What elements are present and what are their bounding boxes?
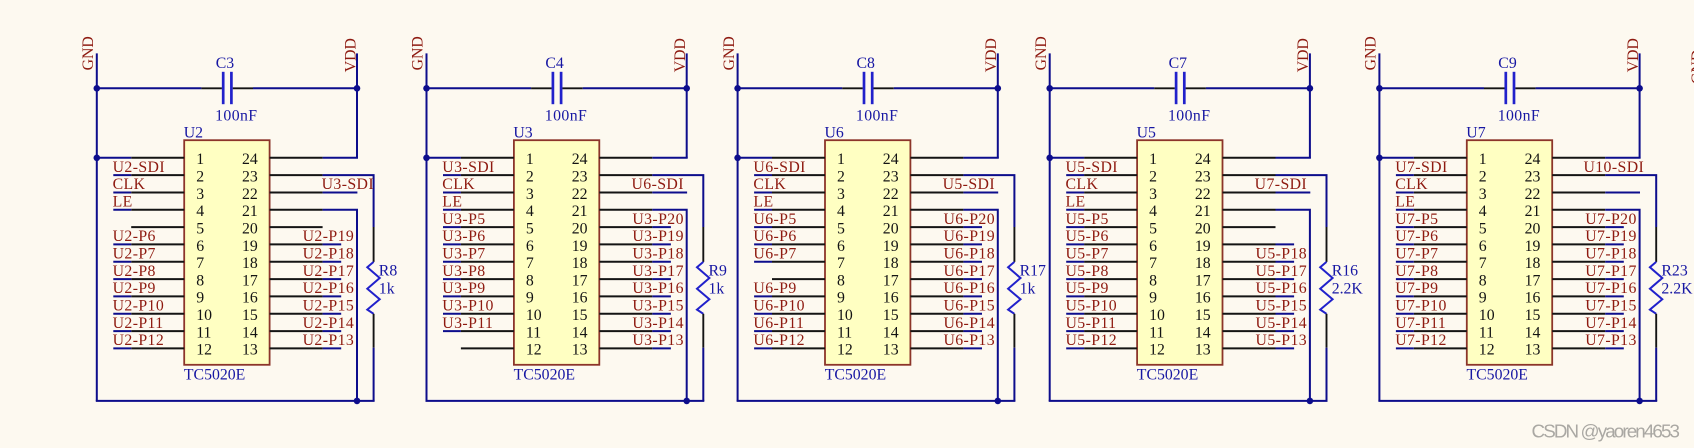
svg-text:U10-SDI: U10-SDI: [1583, 159, 1644, 176]
svg-text:14: 14: [1195, 324, 1211, 341]
pin 22 of U3: [599, 192, 652, 194]
pin 6 of U7: [1414, 243, 1467, 245]
svg-text:21: 21: [883, 203, 899, 220]
pin 20 of U5: [1223, 226, 1276, 228]
wire stub pin 11 (U3-P11): [443, 330, 461, 332]
svg-text:22: 22: [883, 186, 899, 203]
svg-text:2: 2: [1479, 168, 1487, 185]
svg-text:21: 21: [242, 203, 258, 220]
svg-text:LE: LE: [753, 194, 773, 211]
wire stub pin 2 (U5-SDI): [1066, 174, 1084, 176]
junction GND-top: [1376, 85, 1383, 92]
svg-text:23: 23: [1525, 168, 1541, 185]
wire stub pin 16 (U7-P16): [1605, 295, 1624, 297]
wire stub pin 9 (U3-P9): [443, 295, 461, 297]
pin 9 of U7: [1414, 295, 1467, 297]
junction VDD-top: [1307, 85, 1314, 92]
pin 14 of U5: [1223, 330, 1276, 332]
svg-text:U6-P17: U6-P17: [943, 263, 995, 280]
wire stub pin 3 (CLK): [113, 192, 131, 194]
pin 24 of U5: [1223, 157, 1276, 159]
pin 5 of U6: [772, 226, 825, 228]
pin 3 of U2: [131, 192, 184, 194]
svg-text:GND: GND: [1363, 36, 1380, 70]
svg-text:U5-P10: U5-P10: [1066, 298, 1118, 315]
svg-text:16: 16: [572, 290, 588, 307]
svg-text:2: 2: [837, 168, 845, 185]
svg-text:U2-P15: U2-P15: [303, 298, 355, 315]
wire GND bus vertical (U6 block): [737, 53, 739, 401]
svg-text:U7: U7: [1466, 124, 1485, 141]
svg-text:12: 12: [526, 342, 542, 359]
svg-text:17: 17: [242, 272, 258, 289]
pin 13 of U2: [270, 347, 323, 349]
svg-text:12: 12: [1479, 342, 1495, 359]
wire stub pin 16 (U5-P16): [1276, 295, 1295, 297]
wire stub pin 9 (U6-P9): [754, 295, 772, 297]
svg-text:2: 2: [526, 168, 534, 185]
pin 10 of U2: [131, 313, 184, 315]
svg-text:U3-P11: U3-P11: [442, 315, 493, 332]
svg-text:U6-P19: U6-P19: [943, 228, 995, 245]
pin 1 of U2: [131, 157, 184, 159]
wire stub pin 2 (U2-SDI): [113, 174, 131, 176]
pin 24 of U7: [1552, 157, 1605, 159]
wire stub pin 3 (CLK): [1396, 192, 1414, 194]
wire stub pin 4 (LE): [443, 209, 461, 211]
svg-text:U3-P7: U3-P7: [442, 246, 485, 263]
pin 22 of U5: [1223, 192, 1276, 194]
svg-text:U2: U2: [184, 124, 203, 141]
svg-text:8: 8: [1149, 272, 1157, 289]
svg-text:U5-P12: U5-P12: [1066, 332, 1118, 349]
svg-text:22: 22: [242, 186, 258, 203]
svg-text:5: 5: [196, 220, 204, 237]
svg-text:5: 5: [526, 220, 534, 237]
svg-text:1: 1: [1149, 151, 1157, 168]
svg-text:C4: C4: [545, 55, 564, 72]
pin 12 of U6: [772, 347, 825, 349]
pin 19 of U3: [599, 243, 652, 245]
wire stub pin 6 (U2-P6): [113, 243, 131, 245]
svg-text:GND: GND: [721, 36, 738, 70]
svg-text:U6-P18: U6-P18: [943, 246, 995, 263]
svg-text:1: 1: [837, 151, 845, 168]
wire pin22-U6 stub: [963, 192, 998, 194]
svg-text:10: 10: [526, 307, 542, 324]
svg-text:4: 4: [526, 203, 534, 220]
wire GND bus vertical (U7 block): [1378, 53, 1380, 401]
pin 1 of U3: [461, 157, 514, 159]
svg-text:CSDN @yaoren4653: CSDN @yaoren4653: [1532, 420, 1681, 441]
svg-text:16: 16: [1195, 290, 1211, 307]
junction VDD-top: [354, 85, 361, 92]
svg-text:U6-P12: U6-P12: [753, 332, 805, 349]
svg-text:15: 15: [1195, 307, 1211, 324]
svg-text:U3-P10: U3-P10: [442, 298, 494, 315]
svg-text:7: 7: [837, 255, 845, 272]
wire VDD vertical (U2 block): [356, 53, 358, 157]
wire stub pin 19 (unlabeled): [1276, 243, 1295, 245]
pin 12 of U2: [131, 347, 184, 349]
wire stub pin 16 (U2-P16): [323, 295, 342, 297]
svg-text:6: 6: [837, 238, 845, 255]
svg-text:15: 15: [572, 307, 588, 324]
svg-text:15: 15: [883, 307, 899, 324]
IC U2 TC5020E body: [184, 140, 269, 365]
svg-text:U3-P15: U3-P15: [632, 298, 684, 315]
pin 11 of U5: [1084, 330, 1137, 332]
svg-text:R16: R16: [1332, 263, 1358, 280]
pin 4 of U6: [772, 209, 825, 211]
svg-text:U3-P20: U3-P20: [632, 211, 684, 228]
wire stub pin 18 (U5-P18): [1276, 261, 1295, 263]
svg-text:U5-SDI: U5-SDI: [1066, 159, 1118, 176]
junction GND-top: [423, 85, 430, 92]
svg-text:23: 23: [242, 168, 258, 185]
svg-text:24: 24: [242, 151, 258, 168]
svg-text:18: 18: [883, 255, 899, 272]
svg-text:10: 10: [1479, 307, 1495, 324]
svg-text:2.2K: 2.2K: [1332, 281, 1364, 298]
wire stub pin 15 (U5-P15): [1276, 313, 1295, 315]
pin 3 of U3: [461, 192, 514, 194]
junction bottom rail: [354, 398, 361, 405]
junction GND-top: [1046, 85, 1053, 92]
svg-text:CLK: CLK: [1395, 176, 1428, 193]
wire stub pin 10 (U6-P10): [754, 313, 772, 315]
svg-text:13: 13: [1195, 342, 1211, 359]
svg-text:U7-P15: U7-P15: [1585, 298, 1637, 315]
wire top rail right of C4: [583, 87, 688, 89]
wire pin24-U6 to VDD: [963, 157, 998, 159]
pin 15 of U7: [1552, 313, 1605, 315]
wire stub pin 7 (U6-P7): [754, 261, 772, 263]
wire stub pin 20 (U7-P20): [1605, 226, 1624, 228]
svg-text:1: 1: [1479, 151, 1487, 168]
svg-text:13: 13: [883, 342, 899, 359]
wire top rail right of C7: [1206, 87, 1311, 89]
wire pin1-U2 to GND bus: [97, 157, 131, 159]
svg-text:9: 9: [196, 290, 204, 307]
wire top rail left of C3: [96, 87, 202, 89]
svg-text:U2-P6: U2-P6: [113, 228, 156, 245]
wire pin23-U7 to resistor R23: [1605, 175, 1656, 227]
wire stub pin 10 (U5-P10): [1066, 313, 1084, 315]
svg-text:U2-P7: U2-P7: [113, 246, 156, 263]
svg-text:6: 6: [526, 238, 534, 255]
pin 15 of U2: [270, 313, 323, 315]
svg-text:9: 9: [1479, 290, 1487, 307]
svg-text:LE: LE: [1395, 194, 1415, 211]
svg-text:U5-P6: U5-P6: [1066, 228, 1109, 245]
svg-text:CLK: CLK: [113, 176, 146, 193]
wire top rail right of C9: [1536, 87, 1641, 89]
svg-text:19: 19: [883, 238, 899, 255]
pin 22 of U6: [910, 192, 963, 194]
pin 4 of U7: [1414, 209, 1467, 211]
wire stub pin 15 (U6-P15): [963, 313, 982, 315]
wire bottom rail (U6 block): [737, 400, 1016, 402]
svg-text:U2-P16: U2-P16: [303, 280, 355, 297]
svg-text:U5: U5: [1137, 124, 1156, 141]
wire stub pin 9 (U7-P9): [1396, 295, 1414, 297]
pin 10 of U3: [461, 313, 514, 315]
svg-text:TC5020E: TC5020E: [825, 367, 886, 384]
wire stub pin 10 (U2-P10): [113, 313, 131, 315]
pin 16 of U7: [1552, 295, 1605, 297]
svg-text:9: 9: [1149, 290, 1157, 307]
pin 11 of U7: [1414, 330, 1467, 332]
wire stub pin 13 (U2-P13): [323, 347, 342, 349]
wire GND bus vertical (U2 block): [96, 53, 98, 401]
pin 14 of U6: [910, 330, 963, 332]
wire pin23-U3 to resistor R9: [652, 175, 703, 227]
pin 1 of U6: [772, 157, 825, 159]
svg-text:GND: GND: [1689, 50, 1694, 84]
svg-text:8: 8: [196, 272, 204, 289]
pin 17 of U7: [1552, 278, 1605, 280]
svg-text:11: 11: [1479, 324, 1494, 341]
svg-text:1k: 1k: [379, 281, 395, 298]
svg-text:18: 18: [242, 255, 258, 272]
svg-text:U6-P16: U6-P16: [943, 280, 995, 297]
svg-text:16: 16: [242, 290, 258, 307]
wire top rail right of C8: [894, 87, 999, 89]
svg-text:20: 20: [1525, 220, 1541, 237]
wire pin24-U7 to VDD: [1605, 157, 1640, 159]
wire pin1-U6 to GND bus: [738, 157, 772, 159]
pin 20 of U3: [599, 226, 652, 228]
svg-text:17: 17: [883, 272, 899, 289]
wire pin23-U6 to resistor R17: [963, 175, 1014, 227]
junction GND-pin1: [94, 155, 101, 162]
wire stub pin 6 (U5-P6): [1066, 243, 1084, 245]
wire VDD vertical (U6 block): [997, 53, 999, 157]
svg-text:U2-P11: U2-P11: [113, 315, 164, 332]
pin 10 of U6: [772, 313, 825, 315]
wire stub pin 14 (U2-P14): [323, 330, 342, 332]
pin 18 of U5: [1223, 261, 1276, 263]
svg-text:U7-P8: U7-P8: [1395, 263, 1438, 280]
svg-text:19: 19: [1525, 238, 1541, 255]
pin 19 of U6: [910, 243, 963, 245]
wire stub pin 8 (U2-P8): [113, 278, 131, 280]
svg-text:U5-P14: U5-P14: [1256, 315, 1308, 332]
pin 3 of U7: [1414, 192, 1467, 194]
pin 11 of U2: [131, 330, 184, 332]
svg-text:U7-SDI: U7-SDI: [1255, 176, 1307, 193]
pin 21 of U3: [599, 209, 652, 211]
svg-text:24: 24: [883, 151, 899, 168]
pin 3 of U6: [772, 192, 825, 194]
pin 5 of U2: [131, 226, 184, 228]
svg-text:U3-P13: U3-P13: [632, 332, 684, 349]
wire bottom rail (U5 block): [1049, 400, 1328, 402]
pin 6 of U2: [131, 243, 184, 245]
pin 13 of U5: [1223, 347, 1276, 349]
wire stub pin 14 (U7-P14): [1605, 330, 1624, 332]
svg-text:LE: LE: [1066, 194, 1086, 211]
svg-text:U7-P12: U7-P12: [1395, 332, 1447, 349]
wire stub pin 18 (U3-P18): [652, 261, 671, 263]
svg-text:100nF: 100nF: [856, 108, 898, 125]
svg-text:U5-P16: U5-P16: [1256, 280, 1308, 297]
wire stub pin 13 (U3-P13): [652, 347, 671, 349]
svg-text:CLK: CLK: [442, 176, 475, 193]
pin 23 of U2: [270, 174, 323, 176]
junction bottom rail: [995, 398, 1002, 405]
svg-text:CLK: CLK: [753, 176, 786, 193]
wire stub pin 16 (U3-P16): [652, 295, 671, 297]
svg-text:11: 11: [526, 324, 541, 341]
junction GND-top: [734, 85, 741, 92]
svg-text:7: 7: [1479, 255, 1487, 272]
pin 9 of U6: [772, 295, 825, 297]
svg-text:LE: LE: [113, 194, 133, 211]
svg-text:18: 18: [1525, 255, 1541, 272]
svg-text:CLK: CLK: [1066, 176, 1099, 193]
wire R23 bottom to rail: [1655, 348, 1657, 401]
svg-text:14: 14: [883, 324, 899, 341]
capacitor C3 100nF: [201, 72, 253, 104]
IC U5 TC5020E body: [1137, 140, 1222, 365]
svg-text:21: 21: [1195, 203, 1211, 220]
wire stub pin 10 (U3-P10): [443, 313, 461, 315]
resistor R8 1k: [367, 227, 379, 348]
pin 7 of U6: [772, 261, 825, 263]
wire pin24-U3 to VDD: [652, 157, 687, 159]
wire pin21-U7 to bottom rail: [1605, 210, 1639, 401]
pin 14 of U2: [270, 330, 323, 332]
svg-text:U2-P17: U2-P17: [303, 263, 355, 280]
svg-text:14: 14: [1525, 324, 1541, 341]
svg-text:U6-P14: U6-P14: [943, 315, 995, 332]
wire pin21-U2 to bottom rail: [323, 210, 357, 401]
wire top rail left of C7: [1049, 87, 1155, 89]
svg-text:U2-SDI: U2-SDI: [113, 159, 165, 176]
svg-text:U6-P9: U6-P9: [753, 280, 796, 297]
svg-text:TC5020E: TC5020E: [1467, 367, 1528, 384]
svg-text:U3-P9: U3-P9: [442, 280, 485, 297]
pin 22 of U7: [1552, 192, 1605, 194]
junction bottom rail: [1636, 398, 1643, 405]
wire pin24-U2 to VDD: [323, 157, 358, 159]
wire stub pin 5 (U5-P5): [1066, 226, 1084, 228]
svg-text:U2-P9: U2-P9: [113, 280, 156, 297]
junction bottom rail: [683, 398, 690, 405]
wire stub pin 4 (LE): [1396, 209, 1414, 211]
wire stub pin 4 (LE): [1066, 209, 1084, 211]
svg-text:U5-SDI: U5-SDI: [943, 176, 995, 193]
svg-text:12: 12: [196, 342, 212, 359]
wire R16 bottom to rail: [1326, 348, 1328, 401]
svg-text:11: 11: [1149, 324, 1164, 341]
wire R9 bottom to rail: [702, 348, 704, 401]
svg-text:U6: U6: [825, 124, 844, 141]
svg-text:12: 12: [837, 342, 853, 359]
svg-text:1: 1: [526, 151, 534, 168]
pin 17 of U3: [599, 278, 652, 280]
pin 11 of U3: [461, 330, 514, 332]
svg-text:4: 4: [837, 203, 845, 220]
svg-text:16: 16: [883, 290, 899, 307]
pin 23 of U3: [599, 174, 652, 176]
wire stub pin 15 (U7-P15): [1605, 313, 1624, 315]
wire stub pin 2 (U3-SDI): [443, 174, 461, 176]
pin 12 of U3: [461, 347, 514, 349]
wire pin24-U5 to VDD: [1276, 157, 1311, 159]
svg-text:U7-P6: U7-P6: [1395, 228, 1438, 245]
wire VDD vertical (U7 block): [1639, 53, 1641, 157]
svg-text:U6-P10: U6-P10: [753, 298, 805, 315]
pin 13 of U3: [599, 347, 652, 349]
pin 20 of U7: [1552, 226, 1605, 228]
wire stub pin 12 (U2-P12): [113, 347, 131, 349]
resistor R9 1k: [697, 227, 709, 348]
svg-text:24: 24: [1195, 151, 1211, 168]
pin 9 of U5: [1084, 295, 1137, 297]
wire stub pin 18 (U7-P18): [1605, 261, 1624, 263]
svg-text:U5-P9: U5-P9: [1066, 280, 1109, 297]
wire stub pin 7 (U5-P7): [1066, 261, 1084, 263]
junction VDD-top: [995, 85, 1002, 92]
svg-text:U5-P8: U5-P8: [1066, 263, 1109, 280]
svg-text:GND: GND: [410, 36, 427, 70]
svg-text:4: 4: [196, 203, 204, 220]
capacitor C8 100nF: [842, 72, 894, 104]
wire pin1-U5 to GND bus: [1050, 157, 1084, 159]
wire stub pin 18 (U6-P18): [963, 261, 982, 263]
svg-text:U6-SDI: U6-SDI: [631, 176, 683, 193]
pin 15 of U3: [599, 313, 652, 315]
pin 19 of U5: [1223, 243, 1276, 245]
wire stub pin 6 (U7-P6): [1396, 243, 1414, 245]
svg-text:5: 5: [1149, 220, 1157, 237]
pin 18 of U2: [270, 261, 323, 263]
svg-text:U3: U3: [513, 124, 532, 141]
svg-text:15: 15: [242, 307, 258, 324]
svg-text:13: 13: [242, 342, 258, 359]
svg-text:R9: R9: [709, 263, 728, 280]
wire stub pin 8 (U7-P8): [1396, 278, 1414, 280]
svg-text:1k: 1k: [1020, 281, 1036, 298]
pin 19 of U2: [270, 243, 323, 245]
svg-text:7: 7: [1149, 255, 1157, 272]
wire stub pin 13 (U6-P13): [963, 347, 982, 349]
wire stub pin 17 (U2-P17): [323, 278, 342, 280]
svg-text:U6-SDI: U6-SDI: [753, 159, 805, 176]
pin 22 of U2: [270, 192, 323, 194]
pin 24 of U6: [910, 157, 963, 159]
pin 17 of U5: [1223, 278, 1276, 280]
svg-text:22: 22: [1525, 186, 1541, 203]
pin 9 of U3: [461, 295, 514, 297]
wire pin23-U2 to resistor R8: [323, 175, 374, 227]
capacitor C4 100nF: [531, 72, 583, 104]
pin 20 of U6: [910, 226, 963, 228]
svg-text:21: 21: [1525, 203, 1541, 220]
junction bottom rail: [1307, 398, 1314, 405]
wire bottom rail (U3 block): [426, 400, 705, 402]
pin 20 of U2: [270, 226, 323, 228]
wire stub pin 2 (U7-SDI): [1396, 174, 1414, 176]
svg-text:100nF: 100nF: [1498, 108, 1540, 125]
svg-text:1: 1: [196, 151, 204, 168]
pin 5 of U7: [1414, 226, 1467, 228]
wire stub pin 6 (U6-P6): [754, 243, 772, 245]
wire stub pin 5 (U3-P5): [443, 226, 461, 228]
